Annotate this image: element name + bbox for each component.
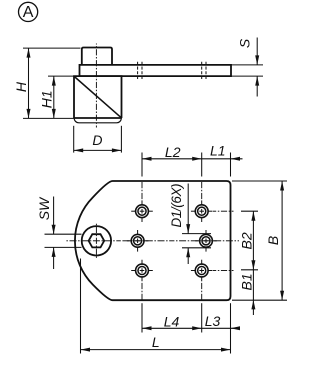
dimension H line	[27, 48, 31, 118]
svg-text:H: H	[13, 81, 29, 92]
hexagon socket	[89, 234, 105, 247]
top right hole centerline to edge	[213, 210, 234, 212]
svg-text:L3: L3	[205, 313, 221, 329]
svg-text:L2: L2	[165, 144, 181, 160]
svg-text:D: D	[92, 132, 102, 148]
dimension SW line	[52, 197, 56, 270]
dimension D1 extension lines	[182, 234, 211, 248]
dimension D1 line	[186, 184, 190, 265]
dimension B2 label	[238, 232, 254, 249]
hidden hole lines right pair	[202, 62, 206, 80]
dimension B label	[265, 236, 281, 245]
dimension L line	[81, 348, 231, 352]
svg-text:L1: L1	[210, 143, 226, 159]
dimension L2 label	[165, 144, 181, 160]
hole bottom right	[191, 260, 213, 282]
dimension H label	[13, 81, 29, 92]
hole top right	[191, 200, 213, 222]
dimension L2 L1 line	[142, 157, 243, 161]
dimension SW label	[36, 196, 52, 220]
left column centerline bottom	[141, 283, 143, 300]
dimension L2 L1 extension lines	[142, 153, 231, 177]
hole middle right	[195, 230, 217, 252]
dimension B2 B1 extension lines	[241, 211, 258, 270]
dimension L extension lines	[81, 259, 231, 354]
dimension B1 line	[251, 270, 255, 315]
hex socket boss circle	[82, 226, 111, 255]
dimension B extension lines	[232, 181, 287, 300]
dimension D extension lines	[74, 126, 122, 153]
middle row horizontal centerline	[66, 240, 239, 242]
view label A	[19, 2, 38, 21]
side view cap knob	[82, 48, 112, 65]
dimension B2 line	[251, 211, 255, 270]
svg-text:D1/(6X): D1/(6X)	[169, 184, 184, 228]
svg-text:B1: B1	[238, 273, 254, 290]
dimension L4 L3 extension lines	[142, 303, 202, 332]
side view cylindrical body	[74, 76, 122, 123]
dimension L3 label	[205, 313, 221, 329]
dimension S label	[236, 38, 252, 48]
hole middle left	[127, 230, 149, 252]
dimension H1 extension line	[48, 75, 74, 77]
svg-text:S: S	[236, 38, 252, 48]
dimension B1 label	[238, 273, 254, 290]
hole bottom left	[131, 260, 153, 282]
dimension H extension lines	[23, 48, 81, 118]
svg-text:L4: L4	[164, 313, 180, 329]
svg-text:B2: B2	[238, 232, 254, 249]
svg-text:SW: SW	[36, 196, 52, 220]
dimension H1 line	[52, 76, 56, 118]
dimension H1 label	[39, 90, 55, 108]
dimension L4 label	[164, 313, 180, 329]
dimension B line	[280, 181, 284, 300]
dimension SW extension lines	[45, 234, 82, 247]
bottom right hole centerline to edge	[213, 270, 234, 272]
right column centerline top	[201, 182, 203, 199]
svg-text:L: L	[152, 334, 160, 350]
svg-text:A: A	[23, 4, 34, 21]
dimension D1 label	[169, 184, 184, 228]
dimension D label	[92, 132, 102, 148]
dimension L1 label	[210, 143, 226, 159]
dimension S extension lines	[231, 65, 263, 76]
plan view plate outline	[75, 181, 231, 300]
dimension S line	[255, 38, 259, 97]
hex vertical centerline	[95, 224, 97, 258]
side view chamfer diagonal	[74, 77, 121, 118]
left column centerline top	[141, 182, 143, 199]
right column centerline bottom	[201, 283, 203, 300]
side view leaf plate	[80, 65, 232, 76]
svg-text:H1: H1	[39, 90, 55, 108]
side view axis centerline	[95, 44, 97, 128]
dimension L label	[152, 334, 160, 350]
hole top left	[131, 200, 153, 222]
dimension L4 L3 line	[142, 326, 240, 330]
hidden hole lines left pair	[138, 62, 142, 80]
svg-text:B: B	[265, 236, 281, 245]
dimension D line	[74, 148, 122, 152]
